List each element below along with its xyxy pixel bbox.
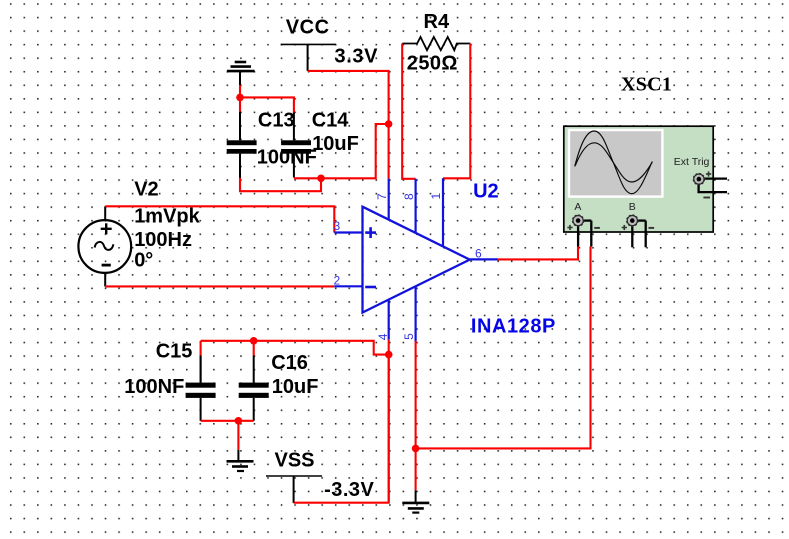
svg-text:5: 5 [402, 333, 416, 340]
svg-text:3.3V: 3.3V [335, 45, 379, 67]
wire C15/C16 bottom [201, 421, 254, 450]
svg-text:2: 2 [334, 274, 341, 288]
wire C14 bottom to VCC net [294, 124, 389, 178]
capacitor C14 [281, 109, 359, 177]
label INA128P [471, 315, 556, 337]
svg-text:-3.3V: -3.3V [324, 479, 374, 501]
wire pin 4 to VSS net [388, 340, 390, 503]
pin 1 [429, 178, 443, 246]
svg-text:0°: 0° [134, 250, 153, 272]
pin 4 [376, 299, 390, 340]
svg-text:VCC: VCC [286, 16, 330, 38]
svg-text:V2: V2 [134, 178, 158, 200]
svg-text:R4: R4 [424, 11, 450, 33]
wire V2 minus to pin 2 [105, 285, 334, 287]
svg-text:6: 6 [475, 247, 482, 261]
pin 5 [402, 286, 416, 341]
wire C15/C16 top to pin4 net [201, 341, 389, 355]
svg-text:250Ω: 250Ω [407, 52, 458, 74]
junction dot pin4/VSS node [385, 351, 393, 359]
svg-text:U2: U2 [473, 181, 499, 203]
wire pin 5 to ground [415, 341, 417, 490]
svg-text:1: 1 [429, 193, 443, 200]
label U2 [473, 181, 499, 203]
junction dot on VCC wire [385, 120, 393, 128]
wire R4 right to pin 1 [443, 44, 470, 179]
wire top ground to C13 and C14 tops [240, 85, 294, 112]
wire scope A- to pin5 ground node [416, 247, 591, 449]
resistor R4 [402, 11, 470, 75]
label V2 [134, 178, 200, 271]
svg-text:10uF: 10uF [272, 376, 319, 398]
scope channel A terminal [567, 201, 600, 246]
op-amp U2 triangle [363, 207, 470, 313]
svg-text:4: 4 [376, 333, 390, 340]
scope trace sine waves [575, 131, 653, 194]
svg-text:XSC1: XSC1 [621, 73, 672, 95]
svg-text:3: 3 [334, 219, 341, 233]
svg-text:7: 7 [375, 193, 389, 200]
junction dot pin5/scope A- node [412, 445, 420, 453]
svg-text:INA128P: INA128P [471, 315, 556, 337]
junction dot C16 top [250, 337, 258, 345]
power symbol VSS [266, 449, 375, 503]
junction dot C13/C14 bottom [317, 175, 325, 183]
ground (top, above C13) [227, 62, 255, 85]
capacitor C15 [124, 341, 215, 421]
svg-text:8: 8 [402, 193, 416, 200]
wire VCC to pin 7 [308, 71, 389, 179]
ground (below pin 5) [402, 490, 429, 512]
svg-text:10uF: 10uF [312, 133, 359, 155]
wire VSS to pin4 net [294, 355, 389, 503]
junction dot C15/C16 bottom [235, 417, 243, 425]
svg-text:100Hz: 100Hz [134, 229, 192, 251]
scope channel B terminal [622, 201, 654, 247]
wire pin 6 output to scope A+ [498, 247, 579, 260]
scope Ext Trig terminal [674, 156, 727, 198]
junction dot at top ground node [236, 94, 244, 102]
svg-text:Ext Trig: Ext Trig [674, 156, 710, 168]
capacitor C16 [239, 341, 319, 421]
svg-text:C13: C13 [258, 109, 295, 131]
pin 3 [334, 219, 363, 233]
oscilloscope XSC1 [564, 73, 713, 232]
svg-text:C14: C14 [312, 109, 350, 131]
wire R4 left to pin 8 [402, 44, 415, 179]
pin 2 [334, 274, 363, 288]
svg-text:A: A [574, 201, 581, 213]
wire V2 plus to pin 3 [105, 206, 334, 232]
capacitor C13 [227, 109, 317, 178]
pin 7 [375, 179, 389, 220]
pin 6 [470, 247, 498, 261]
ground (below C15/C16) [227, 450, 254, 471]
svg-text:C15: C15 [156, 341, 193, 363]
svg-text:B: B [629, 201, 636, 213]
source V2 [78, 206, 131, 286]
wire C13 bottom loop [240, 178, 321, 191]
svg-text:1mVpk: 1mVpk [134, 206, 200, 228]
svg-text:VSS: VSS [275, 449, 315, 471]
svg-text:C16: C16 [271, 352, 308, 374]
pin 8 [402, 179, 416, 233]
power symbol VCC [281, 16, 378, 71]
svg-text:100NF: 100NF [124, 376, 184, 398]
